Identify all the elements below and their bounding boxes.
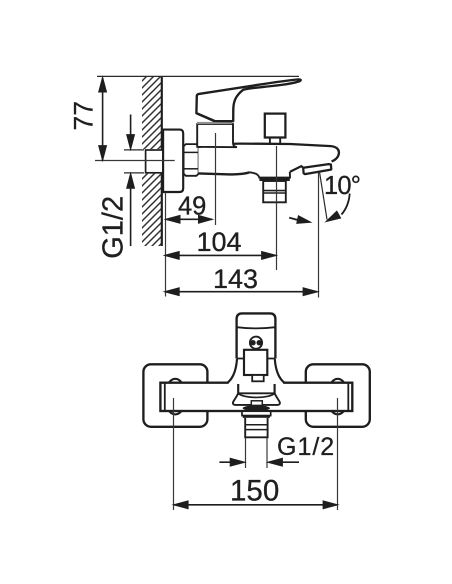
svg-text:150: 150: [230, 475, 279, 508]
svg-text:143: 143: [213, 264, 258, 294]
escutcheon (side view): [163, 130, 183, 192]
bar right end cap: [347, 383, 349, 411]
right mounting nut ellipse: [327, 379, 348, 415]
svg-text:104: 104: [197, 227, 242, 257]
aerator ring: [242, 411, 271, 415]
svg-text:77: 77: [69, 101, 99, 130]
diverter stem: [270, 138, 280, 145]
spout aerator (tilted outlet): [303, 164, 331, 174]
gray gasket band: [197, 122, 232, 124]
shower outlet flange: [250, 172, 290, 178]
dim G1/2 upper arrow: [127, 115, 135, 150]
cartridge collar: [197, 124, 237, 147]
dim 143 line: [165, 288, 318, 296]
shower outlet G1/2 cylinder: [263, 181, 286, 202]
spout cap: [233, 393, 280, 405]
cartridge (front): [244, 350, 267, 375]
10 degree left arc arrow: [289, 216, 311, 224]
centerline cartridge: [215, 133, 217, 225]
svg-text:49: 49: [178, 193, 206, 221]
pipe through wall: [146, 150, 163, 173]
dim 104 line: [165, 252, 277, 260]
diverter knob: [265, 114, 286, 138]
svg-text:10°: 10°: [324, 172, 360, 200]
handle (front): [237, 313, 276, 358]
dim G1/2 ticks: [124, 149, 144, 151]
aerator black band: [243, 415, 270, 418]
body bar: [160, 383, 352, 411]
dim 150 line: [173, 501, 337, 509]
wall hatching: [130, 41, 175, 289]
cartridge stem: [252, 375, 264, 381]
extension line spout stream: [318, 173, 320, 298]
extension lines tube: [245, 438, 247, 468]
dim 77 extension top: [97, 75, 299, 77]
extension line right connection: [337, 398, 339, 510]
body underside right of flange: [290, 166, 303, 172]
svg-text:G1/2: G1/2: [98, 196, 130, 259]
body underside left: [198, 172, 249, 174]
spout cap inner detail: [251, 401, 262, 406]
hex nut: [184, 144, 199, 176]
right escutcheon: [306, 364, 370, 427]
spout (front view) upper body: [238, 384, 274, 393]
dim G1/2 lower arrow: [127, 173, 135, 246]
dim 77 line with arrows: [99, 77, 107, 160]
centerline diverter: [276, 146, 278, 270]
spout cap rim curve: [238, 393, 274, 397]
body top edge and spout nose: [198, 144, 339, 162]
faucet body fill (side view): [198, 143, 339, 177]
hot/cold indicator: [250, 337, 262, 349]
outlet tube: [245, 418, 267, 437]
wall face line: [161, 77, 163, 246]
extension line wall face: [165, 193, 167, 297]
10 degree right arc arrow: [326, 194, 350, 222]
handle base bottom edge: [196, 113, 214, 121]
10 degree stream line: [320, 173, 327, 220]
dim 49 line: [165, 215, 212, 223]
spout dark mouth: [243, 405, 270, 411]
svg-text:G1/2: G1/2: [277, 433, 335, 461]
body shoulders: [228, 359, 285, 383]
bar left end cap: [164, 383, 166, 411]
central body patch over bar edge: [229, 381, 284, 384]
centerline horizontal: [95, 160, 175, 162]
left escutcheon: [143, 364, 207, 427]
lever handle: [196, 79, 300, 121]
extension line left connection: [173, 398, 175, 510]
dim G1/2 (front) arrows: [219, 458, 299, 466]
left mounting nut ellipse: [165, 379, 186, 415]
